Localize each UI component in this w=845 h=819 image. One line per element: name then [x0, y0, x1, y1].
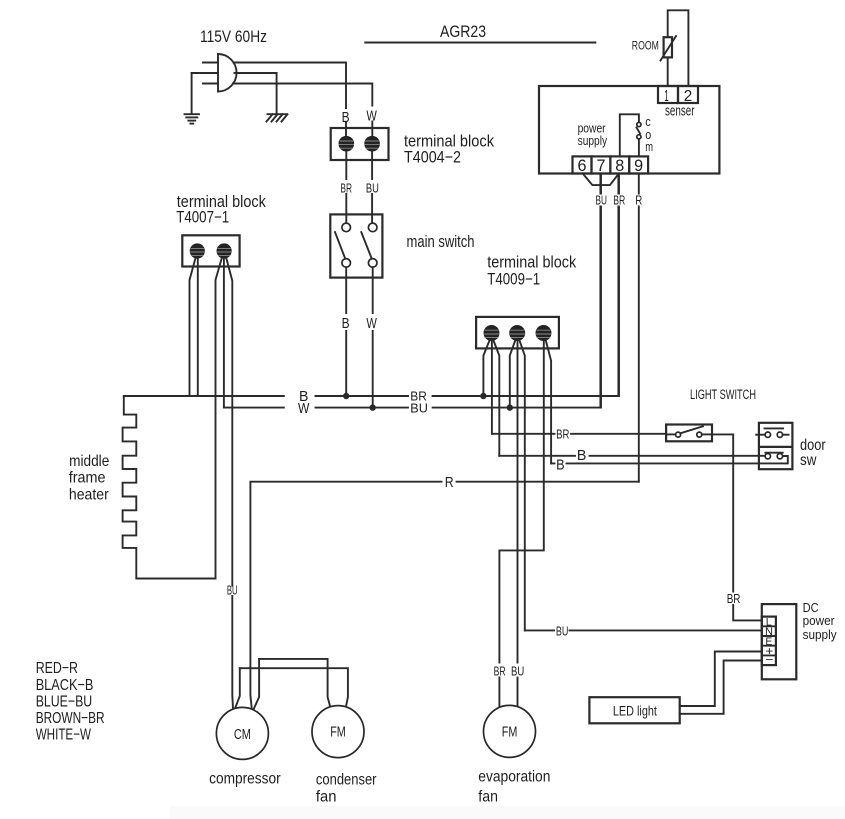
terminal T4009 pin 2 — [509, 325, 525, 341]
svg-text:8: 8 — [615, 156, 624, 175]
wire BR T4004 to main switch — [345, 152, 347, 224]
ground chassis — [267, 114, 288, 121]
svg-text:BU: BU — [511, 664, 524, 678]
svg-text:BU: BU — [596, 194, 607, 208]
terminal block T4009-1 box — [476, 317, 559, 349]
wire T4009 pin3 to B door lower line — [546, 341, 551, 464]
svg-text:senser: senser — [665, 103, 695, 120]
svg-text:BR: BR — [340, 182, 352, 196]
svg-text:fan: fan — [478, 789, 498, 806]
terminal 1 — [658, 86, 678, 103]
main switch pole 1 — [335, 223, 351, 267]
svg-text:T4009−1: T4009−1 — [487, 271, 540, 289]
svg-text:B: B — [556, 457, 565, 474]
thermistor ROOM — [661, 36, 677, 61]
wire BU T4007 pin2 to compressor — [226, 258, 233, 709]
sensor loop wire — [668, 10, 689, 86]
svg-text:T4004−2: T4004−2 — [404, 149, 461, 167]
node W bus / T4009 — [507, 404, 513, 410]
wire compressor pair left — [235, 668, 240, 708]
svg-text:B: B — [342, 315, 350, 332]
svg-text:supply: supply — [578, 133, 608, 148]
svg-text:BR: BR — [556, 428, 569, 442]
svg-text:ROOM: ROOM — [632, 41, 659, 53]
wire DC plus to LED — [680, 652, 762, 707]
svg-text:T4007−1: T4007−1 — [176, 209, 229, 227]
svg-text:sw: sw — [800, 452, 817, 469]
wire T4009 pin1 to B bus — [483, 341, 489, 397]
terminal 8 — [610, 156, 629, 173]
terminal T4009 pin 3 — [536, 325, 552, 341]
svg-text:WHITE−W: WHITE−W — [36, 727, 92, 744]
svg-text:R: R — [445, 474, 454, 491]
wire ground mid — [192, 73, 277, 114]
B line lower to door sw hook — [551, 456, 788, 463]
terminal 9 — [629, 156, 648, 173]
node B bus / main switch — [343, 393, 349, 399]
svg-text:FM: FM — [502, 725, 518, 741]
terminal T4009 pin 1 — [484, 325, 500, 341]
svg-text:BR: BR — [727, 592, 741, 606]
terminal block T4007-1 box — [182, 235, 239, 266]
svg-text:AGR23: AGR23 — [440, 22, 486, 41]
wire BR terminal 8 down — [618, 174, 620, 397]
wire to earth ground — [191, 73, 193, 114]
wire DC minus to LED — [680, 661, 762, 714]
terminal T4007 pin 2 — [217, 243, 232, 258]
svg-text:LED light: LED light — [613, 704, 657, 719]
wire T4009 pin2 to DC supply BU — [520, 341, 525, 631]
wire T4007 pin2 to heater bottom — [216, 258, 222, 579]
svg-text:evaporation: evaporation — [478, 768, 550, 785]
plug prong top — [203, 62, 218, 64]
svg-text:W: W — [298, 400, 310, 417]
wire B from plug to T4004 — [234, 63, 347, 137]
svg-text:fan: fan — [316, 789, 337, 806]
plug P1 body — [218, 54, 237, 92]
svg-text:FM: FM — [330, 725, 346, 741]
bottom shading artifact — [170, 806, 845, 819]
svg-text:115V 60Hz: 115V 60Hz — [200, 27, 267, 46]
evaporation fan FM — [484, 705, 536, 757]
terminal block T4004-2 box — [331, 128, 389, 160]
B bus wire — [124, 174, 619, 397]
wire BU to DC supply — [525, 629, 762, 631]
wire B below main switch — [345, 267, 347, 396]
svg-text:supply: supply — [803, 627, 837, 642]
wire BU T4004 to main switch — [371, 152, 373, 224]
svg-text:W: W — [366, 315, 377, 332]
svg-text:9: 9 — [634, 156, 643, 175]
svg-text:BU: BU — [366, 182, 379, 196]
wire W below main switch — [372, 267, 374, 407]
svg-text:B: B — [342, 109, 350, 126]
svg-text:B: B — [577, 447, 587, 464]
B line upper to door sw — [499, 455, 765, 457]
svg-text:W: W — [366, 108, 377, 125]
wire T4009 pin2 to evap fan BU — [517, 341, 519, 707]
svg-text:frame: frame — [69, 469, 106, 486]
svg-text:middle: middle — [69, 453, 109, 470]
wire W from plug to T4004 — [233, 84, 372, 137]
DC power supply box — [762, 604, 797, 679]
main switch box — [330, 214, 382, 277]
bracket wire terminals 6-8 — [583, 174, 619, 186]
wire R terminal 9 down — [638, 174, 640, 482]
svg-text:main switch: main switch — [407, 233, 475, 251]
wire horizontal CM to FM upper — [259, 659, 330, 708]
terminal 7 — [592, 156, 611, 173]
wire T4009 pin3 to evap fan BR — [499, 341, 543, 707]
svg-text:BLACK−B: BLACK−B — [36, 677, 94, 694]
door switch top contact — [756, 428, 788, 437]
wire light switch to DC supply BR — [712, 434, 762, 620]
R line wire — [250, 482, 638, 709]
svg-text:c: c — [645, 115, 651, 129]
door switch box — [759, 423, 793, 469]
wire T4009 pin1 to B door line — [494, 341, 500, 456]
svg-text:compressor: compressor — [209, 771, 281, 788]
com switch — [620, 114, 641, 156]
W bus wire — [224, 174, 601, 408]
door switch bottom contact — [765, 453, 783, 459]
svg-text:BU: BU — [556, 625, 569, 639]
DC terminal strip — [762, 617, 776, 666]
svg-text:BR: BR — [613, 194, 625, 208]
svg-text:power: power — [803, 613, 836, 628]
plug prong bottom — [203, 83, 218, 85]
terminal 6 — [573, 156, 592, 173]
condenser fan FM — [312, 706, 364, 758]
svg-text:RED−R: RED−R — [36, 660, 78, 677]
wire T4009 pin2 to W bus — [510, 341, 515, 408]
wire T4009 pin1 to BR light line — [491, 341, 493, 434]
wire T4007 pin1 to B bus (left) — [190, 258, 196, 396]
LED light box — [589, 697, 679, 723]
svg-text:−: − — [765, 653, 773, 667]
title underline — [365, 42, 595, 44]
wire T4007 pin2 to W bus — [223, 259, 225, 408]
main switch pole 2 — [361, 223, 377, 267]
svg-text:BR: BR — [494, 664, 506, 678]
controller box — [539, 86, 719, 174]
node W bus / main switch — [370, 404, 376, 410]
ground earth — [185, 114, 200, 123]
svg-text:BU: BU — [410, 402, 428, 416]
heater element zigzag — [123, 396, 216, 579]
terminal T4004 pin 1 — [339, 136, 355, 152]
svg-text:heater: heater — [69, 487, 109, 504]
svg-text:BLUE−BU: BLUE−BU — [36, 693, 92, 710]
svg-text:BU: BU — [227, 584, 238, 598]
svg-text:LIGHT SWITCH: LIGHT SWITCH — [690, 387, 756, 402]
wire BU terminal 7 down — [600, 174, 602, 408]
svg-text:6: 6 — [578, 156, 587, 175]
svg-text:condenser: condenser — [316, 772, 377, 789]
compressor CM — [216, 707, 268, 759]
svg-text:CM: CM — [234, 727, 251, 743]
svg-text:terminal block: terminal block — [487, 254, 577, 272]
terminal T4007 pin 1 — [190, 243, 205, 258]
svg-text:m: m — [645, 140, 653, 154]
wire horizontal CM to FM lower — [240, 668, 348, 707]
light switch — [666, 425, 712, 442]
wire T4007 pin1 to B bus (right) — [197, 259, 199, 396]
terminal 2 — [678, 86, 698, 103]
BR line to light switch — [492, 433, 666, 435]
wire compressor pair right — [254, 659, 260, 710]
svg-text:7: 7 — [597, 156, 606, 175]
svg-text:BROWN−BR: BROWN−BR — [36, 710, 105, 727]
svg-text:R: R — [635, 194, 642, 208]
node B bus / T4009 — [480, 393, 486, 399]
terminal T4004 pin 2 — [364, 136, 380, 152]
